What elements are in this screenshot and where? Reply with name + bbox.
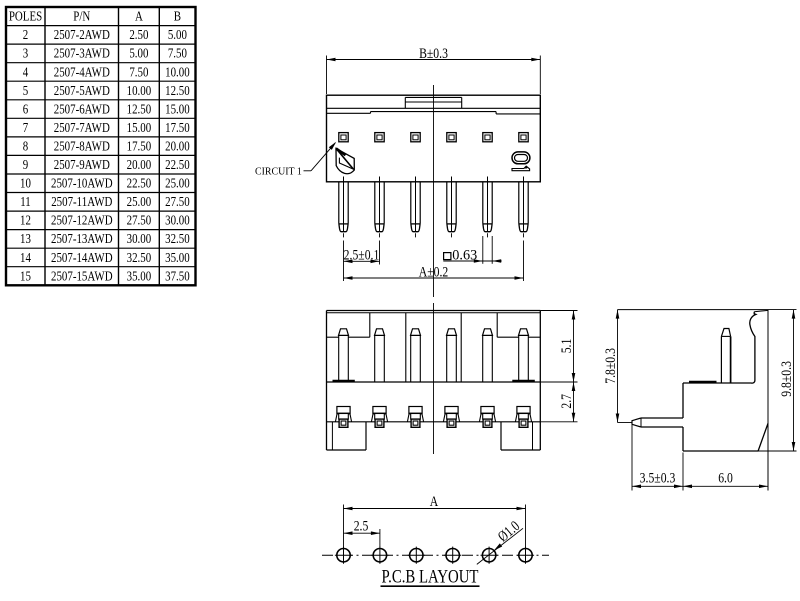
circuit 1 oval mark xyxy=(512,152,530,171)
svg-text:A: A xyxy=(135,8,143,24)
dimension 9.8±0.3 (side view overall height) xyxy=(759,310,797,451)
svg-text:5: 5 xyxy=(23,83,28,99)
svg-text:35.00: 35.00 xyxy=(165,250,190,266)
contact 2 (front view) xyxy=(371,407,387,428)
contact square 4 (top view) xyxy=(447,133,456,142)
svg-text:B: B xyxy=(174,8,181,24)
contact 1 (front view) xyxy=(335,407,351,428)
svg-text:15: 15 xyxy=(20,268,31,284)
contact 4 (front view) xyxy=(443,407,459,428)
svg-text:7.50: 7.50 xyxy=(168,45,187,61)
svg-text:17.50: 17.50 xyxy=(165,120,190,136)
front view right recess xyxy=(497,313,540,337)
dimension A±0.2 (first-last pin span) xyxy=(344,263,524,280)
svg-text:2507-7AWD: 2507-7AWD xyxy=(54,120,110,136)
pcb layout centerline xyxy=(322,554,549,556)
pcb hole 4 xyxy=(444,547,461,564)
pcb hole 2 xyxy=(371,547,388,564)
pin 1 (top view) xyxy=(339,177,348,282)
svg-text:12.50: 12.50 xyxy=(127,101,152,117)
svg-text:3: 3 xyxy=(23,45,28,61)
svg-text:2507-5AWD: 2507-5AWD xyxy=(54,83,110,99)
svg-text:14: 14 xyxy=(20,250,32,266)
contact square 1 (top view) xyxy=(339,133,348,142)
svg-text:2.50: 2.50 xyxy=(129,27,148,43)
svg-text:2507-3AWD: 2507-3AWD xyxy=(54,45,110,61)
svg-text:2507-10AWD: 2507-10AWD xyxy=(51,175,113,191)
front view outer body xyxy=(327,311,541,451)
svg-text:2507-13AWD: 2507-13AWD xyxy=(51,231,113,247)
front view vertical centerline xyxy=(433,303,435,454)
svg-text:5.1: 5.1 xyxy=(557,339,574,354)
contact 5 (front view) xyxy=(479,407,495,428)
contact 6 (front view) xyxy=(515,407,531,428)
top view center latch tab xyxy=(405,97,461,108)
dimension 7.8±0.3 (side view height to pin) xyxy=(601,310,632,423)
svg-text:0.63: 0.63 xyxy=(452,247,477,263)
pin 3 (top view) xyxy=(411,177,420,238)
svg-text:7.8±0.3: 7.8±0.3 xyxy=(601,348,618,384)
pin 5 (top view) xyxy=(483,177,492,238)
P.C.B LAYOUT title xyxy=(381,566,480,587)
pcb hole 6 xyxy=(517,547,534,564)
svg-text:30.00: 30.00 xyxy=(127,231,152,247)
svg-text:15.00: 15.00 xyxy=(165,101,190,117)
svg-text:13: 13 xyxy=(20,231,31,247)
svg-text:25.00: 25.00 xyxy=(165,175,190,191)
svg-text:12.50: 12.50 xyxy=(165,83,190,99)
svg-text:6: 6 xyxy=(23,101,28,117)
contact square 6 (top view) xyxy=(519,133,528,142)
svg-text:10: 10 xyxy=(20,175,31,191)
dimension 2.5±0.1 (pin pitch) xyxy=(344,246,380,263)
front view left recess xyxy=(327,313,370,337)
svg-text:P/N: P/N xyxy=(73,8,90,24)
svg-text:25.00: 25.00 xyxy=(127,194,152,210)
svg-text:A: A xyxy=(430,493,439,510)
pcb hole 3 xyxy=(408,547,425,564)
svg-text:CIRCUIT 1: CIRCUIT 1 xyxy=(255,166,302,178)
pin 5 (front view) xyxy=(483,329,493,382)
side view top lip xyxy=(689,381,717,383)
svg-text:2507-15AWD: 2507-15AWD xyxy=(51,268,113,284)
pcb hole 1 xyxy=(335,547,352,564)
dimension 6.0 (body depth) xyxy=(683,469,768,488)
dimension 3.5±0.3 (pin length) xyxy=(632,425,683,491)
svg-text:30.00: 30.00 xyxy=(165,212,190,228)
pin 1 (front view) xyxy=(339,329,349,382)
svg-text:A±0.2: A±0.2 xyxy=(419,263,448,280)
svg-text:POLES: POLES xyxy=(9,8,42,24)
dimension A (pcb hole span) xyxy=(344,493,526,547)
pin 4 (top view) xyxy=(447,177,456,238)
contact square 2 (top view) xyxy=(375,133,384,142)
pin 6 (top view) xyxy=(519,177,528,282)
svg-text:P.C.B LAYOUT: P.C.B LAYOUT xyxy=(382,566,479,587)
svg-text:8: 8 xyxy=(23,138,28,154)
svg-text:7: 7 xyxy=(23,120,28,136)
svg-text:2507-2AWD: 2507-2AWD xyxy=(54,27,110,43)
top view vertical centerline xyxy=(433,85,435,297)
dimension square 0.63 (pin size) xyxy=(443,236,501,264)
front view slot divider left xyxy=(405,313,407,382)
svg-text:2.5±0.1: 2.5±0.1 xyxy=(344,246,380,263)
pin 2 (top view) xyxy=(375,177,384,265)
svg-text:2507-9AWD: 2507-9AWD xyxy=(54,157,110,173)
front view slot divider right xyxy=(460,313,462,382)
front view right foot xyxy=(501,422,540,450)
svg-text:9.8±0.3: 9.8±0.3 xyxy=(778,361,795,397)
svg-text:20.00: 20.00 xyxy=(165,138,190,154)
pin 4 (front view) xyxy=(447,329,457,382)
dimension 2.5 (pcb hole pitch) xyxy=(344,517,380,547)
parts table grid xyxy=(6,7,196,285)
svg-text:15.00: 15.00 xyxy=(127,120,152,136)
svg-text:Ø1.0: Ø1.0 xyxy=(494,517,523,545)
svg-text:32.50: 32.50 xyxy=(165,231,190,247)
svg-text:5.00: 5.00 xyxy=(129,45,148,61)
pin (side view, horizontal) xyxy=(632,418,683,427)
dimension 2.7 (front view lower height) xyxy=(540,382,577,422)
svg-text:5.00: 5.00 xyxy=(168,27,187,43)
svg-text:22.50: 22.50 xyxy=(165,157,190,173)
CIRCUIT 1 label and leader arrow xyxy=(255,142,336,178)
svg-text:2.7: 2.7 xyxy=(557,394,574,409)
pin 6 (front view) xyxy=(519,329,529,382)
pin (side view, vertical) xyxy=(721,329,730,384)
svg-text:2.5: 2.5 xyxy=(354,517,369,534)
top view body outline xyxy=(327,95,541,182)
parts table text xyxy=(9,8,190,283)
svg-text:35.00: 35.00 xyxy=(127,268,152,284)
svg-text:2507-12AWD: 2507-12AWD xyxy=(51,212,113,228)
slot floor mark right xyxy=(512,380,535,382)
svg-text:2507-11AWD: 2507-11AWD xyxy=(51,194,112,210)
contact 3 (front view) xyxy=(407,407,423,428)
svg-text:12: 12 xyxy=(20,212,31,228)
pin 3 (front view) xyxy=(411,329,421,382)
front view left foot xyxy=(327,422,367,450)
leader Ø1.0 (hole diameter) xyxy=(477,517,523,564)
svg-text:2: 2 xyxy=(23,27,28,43)
svg-text:11: 11 xyxy=(20,194,31,210)
slot floor mark left xyxy=(333,380,355,382)
svg-text:37.50: 37.50 xyxy=(165,268,190,284)
svg-text:10.00: 10.00 xyxy=(165,64,190,80)
dimension 5.1 (front view upper height) xyxy=(540,311,577,383)
svg-text:32.50: 32.50 xyxy=(127,250,152,266)
svg-text:17.50: 17.50 xyxy=(127,138,152,154)
polarity wedge mark xyxy=(336,148,354,173)
svg-text:27.50: 27.50 xyxy=(127,212,152,228)
pcb hole 5 xyxy=(481,547,498,564)
top view stepped band edge xyxy=(327,108,541,114)
contact square 3 (top view) xyxy=(411,133,420,142)
svg-text:7.50: 7.50 xyxy=(129,64,148,80)
svg-text:27.50: 27.50 xyxy=(165,194,190,210)
side view body outline xyxy=(618,310,769,491)
svg-text:2507-14AWD: 2507-14AWD xyxy=(51,250,113,266)
pin 2 (front view) xyxy=(375,329,385,382)
svg-text:10.00: 10.00 xyxy=(127,83,152,99)
svg-text:2507-6AWD: 2507-6AWD xyxy=(54,101,110,117)
svg-text:3.5±0.3: 3.5±0.3 xyxy=(640,469,676,486)
svg-text:20.00: 20.00 xyxy=(127,157,152,173)
svg-text:9: 9 xyxy=(23,157,28,173)
dimension B±0.3 (top view width) xyxy=(327,44,541,94)
svg-text:2507-4AWD: 2507-4AWD xyxy=(54,64,110,80)
contact square 5 (top view) xyxy=(483,133,492,142)
svg-text:22.50: 22.50 xyxy=(127,175,152,191)
svg-text:B±0.3: B±0.3 xyxy=(419,44,448,61)
svg-text:6.0: 6.0 xyxy=(718,469,733,486)
svg-text:2507-8AWD: 2507-8AWD xyxy=(54,138,110,154)
svg-text:4: 4 xyxy=(23,64,29,80)
